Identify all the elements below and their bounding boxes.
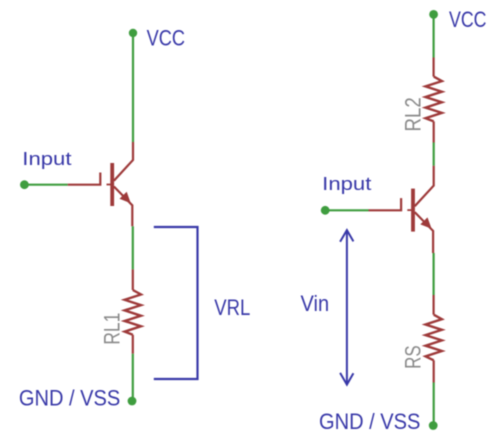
svg-text:Input: Input bbox=[22, 149, 71, 169]
svg-text:VCC: VCC bbox=[449, 7, 487, 32]
svg-text:GND / VSS: GND / VSS bbox=[319, 409, 420, 434]
svg-text:VRL: VRL bbox=[214, 295, 250, 320]
svg-text:RL1: RL1 bbox=[100, 313, 125, 345]
svg-text:RS: RS bbox=[401, 345, 426, 369]
svg-text:Vin: Vin bbox=[301, 291, 330, 316]
svg-text:GND / VSS: GND / VSS bbox=[19, 386, 120, 411]
svg-text:Input: Input bbox=[322, 174, 371, 194]
svg-text:VCC: VCC bbox=[147, 25, 185, 50]
svg-text:RL2: RL2 bbox=[400, 97, 425, 131]
